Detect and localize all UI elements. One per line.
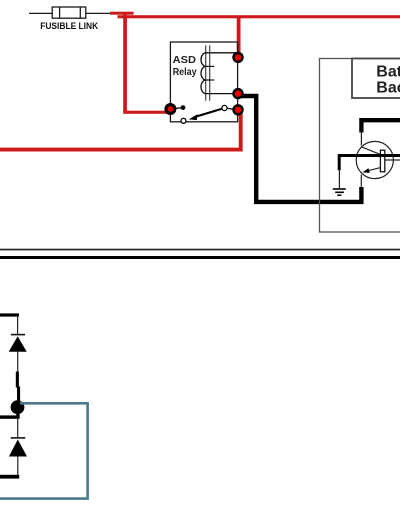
battery backup module box (320, 59, 400, 233)
wire emitter thick to bottom net (359, 187, 363, 202)
node relay pin 2 (red junction dot) (232, 88, 243, 99)
transistor Q1 base bar (380, 150, 384, 172)
contact NO circle (181, 118, 186, 123)
wire red drop to relay coil (right vertical) (237, 17, 241, 57)
wire diode D2 top lead (17, 418, 19, 438)
relay coil winding (201, 53, 214, 94)
svg-text:Relay: Relay (173, 67, 197, 78)
node junction dot (11, 400, 25, 414)
teal highlight box (0, 403, 88, 498)
wire base thin lead right (385, 159, 400, 161)
wire emitter thin lead (360, 175, 362, 189)
label box Battery Backup (352, 59, 400, 99)
label ASD Relay (173, 55, 197, 78)
wire coil top to pin (206, 52, 238, 54)
wire diode D1 top lead (17, 315, 19, 335)
node relay pin 3 (red junction dot) (232, 104, 243, 115)
contact NC dot (181, 105, 186, 110)
wire red drop to relay (left vertical) (123, 14, 127, 112)
transistor Q1 collector inner lead (362, 147, 380, 154)
wire black from relay pin 2 to transistor emitter net (238, 96, 364, 202)
wire coil bottom to pin (206, 93, 238, 95)
switch pivot circle (222, 105, 227, 110)
wire thick below node (16, 409, 19, 418)
wire stub red dot to NC contact (170, 108, 182, 109)
wire red horizontal into relay common (123, 111, 167, 114)
node relay common (red junction dot) (164, 103, 176, 115)
wire diode D1 bottom lead (17, 352, 19, 372)
separator thin rule (0, 249, 400, 251)
wire red main feed horizontal to right edge (118, 15, 400, 18)
wire red tap bar at fusible link output (110, 12, 134, 15)
wire base net thick to right edge and ground corner (339, 156, 400, 171)
fusible link body (52, 7, 86, 18)
svg-text:FUSIBLE LINK: FUSIBLE LINK (40, 20, 98, 31)
wire fusible link right lead (86, 12, 111, 14)
switch arm with arrow (189, 108, 224, 120)
svg-text:Battery: Battery (376, 64, 400, 81)
wire diode D2 bottom lead (17, 457, 19, 476)
transistor Q1 emitter inner lead with arrow (362, 168, 380, 173)
relay coil core (206, 45, 210, 100)
diode D1 (9, 335, 27, 352)
diode D2 (9, 438, 27, 457)
wire collector thick from right edge (361, 120, 400, 132)
wire thick stub bottom left (0, 475, 19, 479)
wire thick segment above node (16, 372, 20, 402)
ASD relay box (170, 42, 237, 122)
svg-text:Backup: Backup (376, 80, 400, 97)
separator thick rule (0, 256, 400, 259)
ground symbol (333, 189, 346, 195)
wire thick stub top left (0, 313, 19, 316)
wire stub pivot to pin (225, 108, 239, 110)
svg-text:ASD: ASD (173, 55, 196, 66)
wire fusible link left lead (29, 12, 53, 14)
wire thick stub mid left (0, 415, 20, 418)
node relay pin 1 (red junction dot) (232, 52, 243, 63)
wire ground stem (338, 169, 340, 188)
transistor Q1 circle (356, 141, 393, 178)
wire red from relay pin 3 down and left to edge (0, 110, 241, 150)
wire collector thin lead (360, 131, 362, 146)
